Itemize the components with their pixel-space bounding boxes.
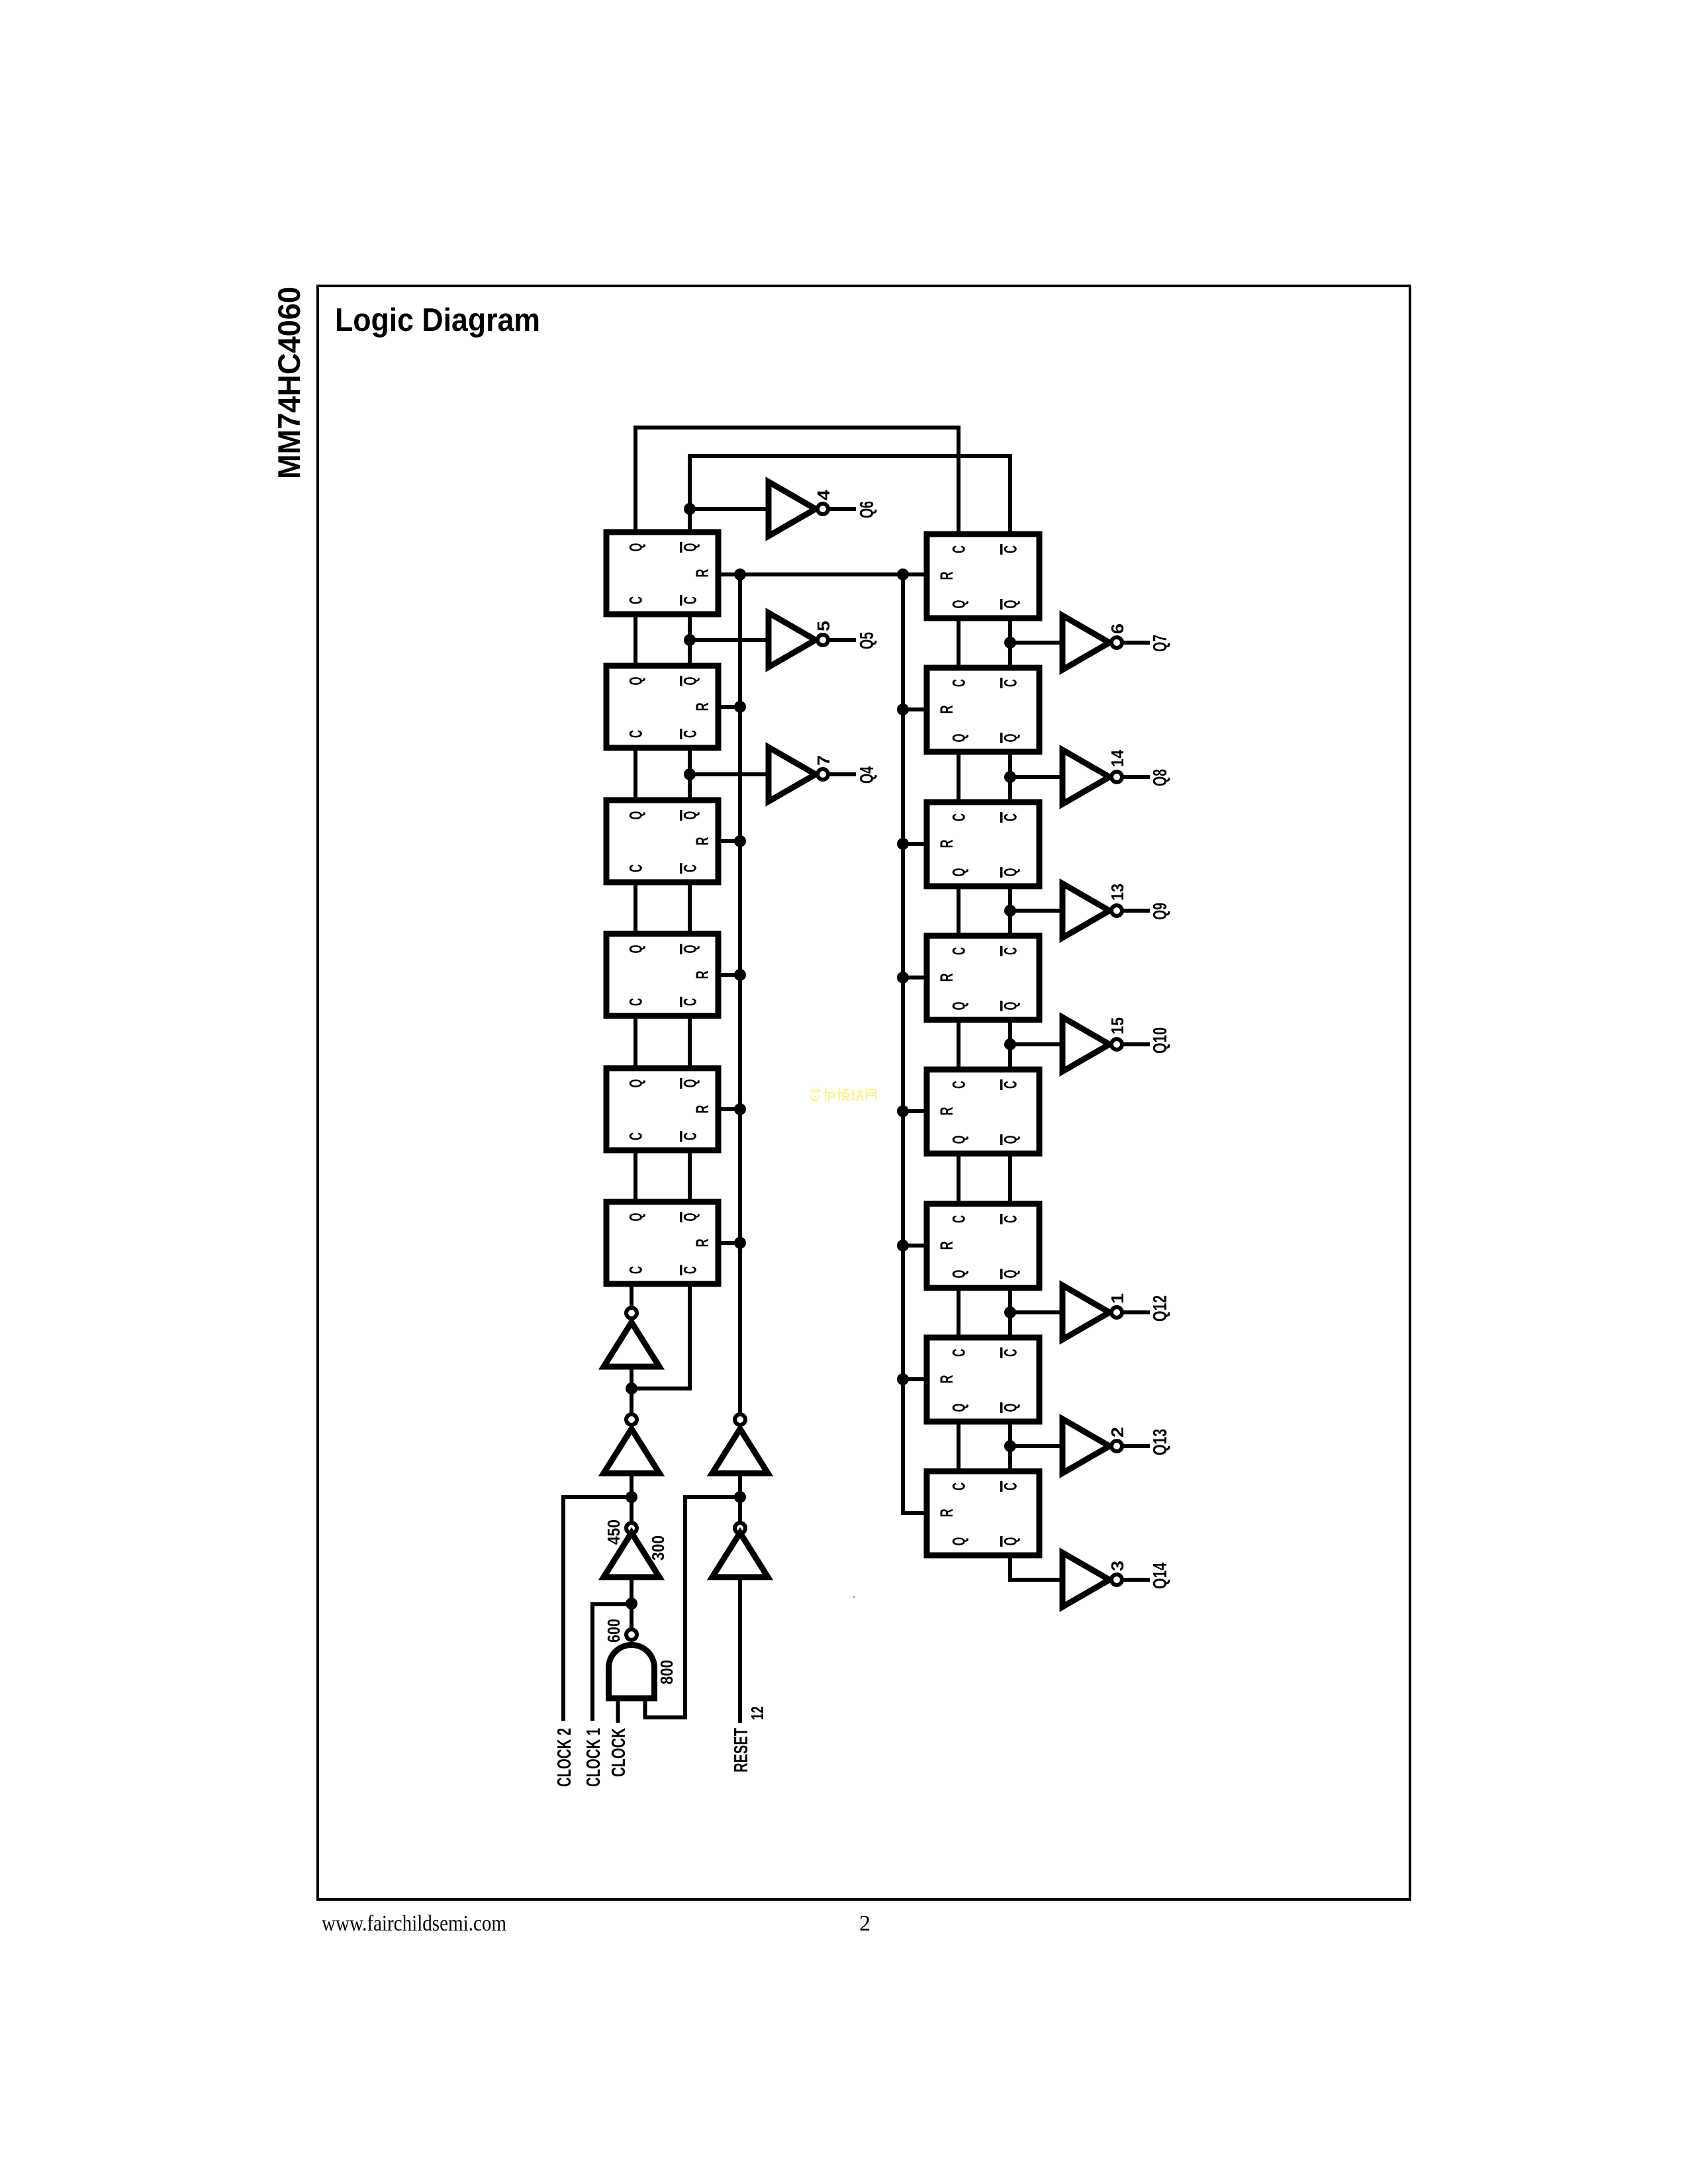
wire RF6 R stub xyxy=(903,1244,927,1248)
flip-flop RF5 (right column stage 11) xyxy=(927,1069,1039,1154)
svg-text:Q: Q xyxy=(1001,1270,1021,1279)
wire RF3 Qbar to RF4 Cbar xyxy=(1008,886,1012,936)
junction FF4 R on rail xyxy=(734,969,746,981)
junction RF5 R on rail xyxy=(897,1105,909,1117)
inverter output buffer 14/Q8 xyxy=(1062,750,1109,804)
svg-text:R: R xyxy=(692,971,712,979)
wire RF5 Q to RF6 C xyxy=(957,1154,961,1204)
wire node B to inverter B bubble xyxy=(630,1497,633,1523)
svg-text:C: C xyxy=(680,1266,700,1274)
wire FF2 R stub xyxy=(718,705,740,709)
svg-text:5: 5 xyxy=(814,621,833,631)
svg-text:Q: Q xyxy=(949,1136,969,1144)
flip-flop RF4 (right column stage 10) xyxy=(927,936,1039,1020)
inverter 3/Q14 xyxy=(1062,1553,1109,1607)
wire FF6 Cbar down to node A xyxy=(688,1284,692,1388)
svg-text:Q: Q xyxy=(949,868,969,877)
wire FF5 R stub xyxy=(718,1107,740,1111)
svg-text:C: C xyxy=(680,730,700,738)
junction Qbar tap for inverter 13 xyxy=(1004,905,1016,917)
wire node A to FF6 Cbar riser xyxy=(632,1387,690,1390)
wire node D to inverter D bubble xyxy=(738,1497,742,1523)
junction Qbar tap for inverter 6 xyxy=(1004,637,1016,649)
junction FF3 R on rail xyxy=(734,835,746,847)
svg-text:CLOCK 2: CLOCK 2 xyxy=(554,1728,575,1787)
svg-text:C: C xyxy=(680,864,700,872)
svg-text:Q: Q xyxy=(949,1270,969,1279)
wire node A to inverter A bubble xyxy=(630,1388,633,1414)
svg-text:R: R xyxy=(937,840,957,848)
svg-text:Q: Q xyxy=(626,677,646,686)
wire node C to CLOCK 1 drop xyxy=(592,1604,632,1721)
junction node B (CLOCK 2 tie) xyxy=(626,1491,637,1503)
svg-text:Q7: Q7 xyxy=(1150,635,1171,652)
wire FF1 Q to RF1 C (top feedback) xyxy=(635,428,959,534)
wire to output buffer 6/Q7 input xyxy=(1010,615,1171,670)
output stub of output buffer 14/Q8 xyxy=(1123,775,1148,779)
wire RF4 Q to RF5 C xyxy=(957,1020,961,1069)
inverter driving FF6 C xyxy=(604,1322,659,1367)
svg-text:R: R xyxy=(937,572,957,580)
bubble of output buffer 6/Q7 xyxy=(1111,637,1122,648)
svg-text:R: R xyxy=(692,1239,712,1248)
junction node C (CLOCK 1 tie) xyxy=(626,1598,637,1610)
junction RF6 R on rail xyxy=(897,1240,909,1251)
wire to output buffer 15/Q10 input xyxy=(1010,1017,1171,1071)
svg-text:R: R xyxy=(937,1242,957,1250)
bubble of output buffer 13/Q9 xyxy=(1111,905,1122,916)
flip-flop RF1 (right column stage 7) xyxy=(927,534,1039,618)
junction FF2 R on rail xyxy=(734,701,746,713)
svg-text:Q: Q xyxy=(1001,1404,1021,1412)
wire to output buffer 14/Q8 input xyxy=(1010,750,1171,804)
svg-text:Q: Q xyxy=(680,1213,700,1222)
bubble of inverter 3/Q14 xyxy=(1111,1574,1122,1585)
wire FF6 C to clock inverter bubble xyxy=(630,1284,633,1308)
bubble of FF6 clock inverter xyxy=(626,1308,637,1318)
wire node B to CLOCK 2 drop xyxy=(563,1497,632,1721)
svg-text:C: C xyxy=(1001,545,1021,553)
svg-text:C: C xyxy=(1001,947,1021,955)
svg-text:R: R xyxy=(937,974,957,982)
svg-text:C: C xyxy=(1001,1482,1021,1490)
svg-text:300: 300 xyxy=(648,1535,668,1561)
bubble of output buffer 4/Q6 xyxy=(818,504,828,514)
svg-text:C: C xyxy=(626,596,646,604)
svg-text:Q: Q xyxy=(626,811,646,820)
wire to output buffer 1/Q12 input xyxy=(1010,1285,1171,1340)
junction right reset rail top xyxy=(897,569,909,580)
svg-text:www.fairchildsemi.com: www.fairchildsemi.com xyxy=(322,1911,506,1936)
svg-text:Q4: Q4 xyxy=(857,766,878,784)
flip-flop RF3 (right column stage 9) xyxy=(927,802,1039,886)
svg-text:800: 800 xyxy=(657,1660,677,1684)
NAND right input stub to reset-inverted net xyxy=(645,1497,686,1717)
svg-text:7: 7 xyxy=(814,755,833,766)
inverter output buffer 2/Q13 xyxy=(1062,1419,1109,1473)
output stub of output buffer 13/Q9 xyxy=(1123,909,1148,913)
wire RF4 Qbar to RF5 Cbar xyxy=(1008,1020,1012,1069)
flip-flop FF2 (left column stage 5) xyxy=(606,666,718,748)
bubble of output buffer 7/Q4 xyxy=(818,769,828,780)
svg-text:4: 4 xyxy=(814,489,833,500)
wire FF3 Cbar to FF4 Qbar xyxy=(688,882,692,934)
junction FF6 R on rail xyxy=(734,1237,746,1249)
bubble of inverter A xyxy=(626,1414,637,1425)
svg-text:Q5: Q5 xyxy=(857,632,878,649)
bubble of output buffer 2/Q13 xyxy=(1111,1441,1122,1451)
junction node A (buffered clock) xyxy=(626,1383,637,1394)
output stub of output buffer 15/Q10 xyxy=(1123,1042,1148,1046)
junction left reset rail top xyxy=(734,569,746,580)
wire RF3 R stub xyxy=(903,842,927,846)
scan speck (decorative) xyxy=(853,1596,855,1598)
svg-text:Q: Q xyxy=(1001,734,1021,743)
flip-flop FF4 (left column stage 3) xyxy=(606,934,718,1016)
inverter output buffer 13/Q9 xyxy=(1062,884,1109,938)
svg-text:Q: Q xyxy=(626,945,646,954)
svg-text:C: C xyxy=(1001,813,1021,821)
svg-text:C: C xyxy=(680,1132,700,1140)
svg-text:R: R xyxy=(937,1107,957,1116)
svg-text:Q10: Q10 xyxy=(1150,1027,1171,1054)
junction RF4 R on rail xyxy=(897,972,909,983)
wire FF1 Qbar to RF1 Cbar (second feedback) xyxy=(690,456,1010,534)
flip-flop FF6 (left column stage 1) xyxy=(606,1202,718,1284)
NAND gate (clock gating) xyxy=(609,1645,655,1699)
svg-text:Q: Q xyxy=(1001,600,1021,609)
svg-text:R: R xyxy=(937,1375,957,1384)
svg-text:2: 2 xyxy=(1107,1427,1127,1437)
output stub of output buffer 4/Q6 xyxy=(829,507,854,511)
wire RF2 Qbar to RF3 Cbar xyxy=(1008,752,1012,802)
output stub of output buffer 1/Q12 xyxy=(1123,1310,1148,1314)
wire inverter C input to node D xyxy=(738,1473,742,1497)
svg-text:C: C xyxy=(1001,1215,1021,1223)
wire FF4 Cbar to FF5 Qbar xyxy=(688,1016,692,1068)
svg-text:Q: Q xyxy=(949,734,969,743)
svg-text:13: 13 xyxy=(1107,884,1127,901)
junction Qbar tap for inverter 5 xyxy=(684,634,696,646)
wire RF2 R stub xyxy=(903,707,927,711)
wire inverter B input to node C xyxy=(630,1577,633,1604)
wire FF4 C to FF5 Q xyxy=(633,1016,637,1068)
inverter output buffer 1/Q12 xyxy=(1062,1285,1109,1340)
inverter B xyxy=(604,1533,659,1577)
wire FF3 R stub xyxy=(718,839,740,843)
junction Qbar tap for inverter 2 xyxy=(1004,1440,1016,1452)
svg-text:C: C xyxy=(949,1081,969,1089)
junction RF3 R on rail xyxy=(897,838,909,850)
svg-text:6: 6 xyxy=(1107,623,1127,634)
svg-text:C: C xyxy=(949,1482,969,1490)
wire FF2 Cbar to FF3 Qbar xyxy=(688,748,692,800)
wire inverter A input to node B xyxy=(630,1473,633,1497)
wire FF4 R stub xyxy=(718,973,740,977)
svg-text:Q: Q xyxy=(1001,1136,1021,1144)
svg-text:Q6: Q6 xyxy=(857,501,878,518)
svg-text:C: C xyxy=(949,679,969,687)
svg-text:Q9: Q9 xyxy=(1150,903,1171,920)
wire RF1 Qbar to RF2 Cbar xyxy=(1008,618,1012,668)
svg-text:Q: Q xyxy=(626,543,646,552)
svg-text:15: 15 xyxy=(1107,1017,1127,1034)
inverter A xyxy=(604,1429,659,1473)
NAND left input stub (CLOCK) xyxy=(616,1698,620,1721)
svg-text:Q: Q xyxy=(949,1537,969,1546)
svg-text:R: R xyxy=(692,569,712,578)
inverter D (reset input) xyxy=(712,1533,768,1577)
svg-text:C: C xyxy=(949,813,969,821)
svg-text:MM74HC4060: MM74HC4060 xyxy=(271,287,306,479)
svg-text:Q12: Q12 xyxy=(1150,1295,1171,1322)
wire to output buffer 2/Q13 input xyxy=(1010,1419,1171,1473)
svg-text:C: C xyxy=(680,596,700,604)
wire FF3 C to FF4 Q xyxy=(633,882,637,934)
svg-text:Q: Q xyxy=(626,1079,646,1088)
wire RF6 Qbar to RF7 Cbar xyxy=(1008,1288,1012,1338)
svg-text:3: 3 xyxy=(1107,1561,1127,1571)
wire node D to NAND-branch vertical xyxy=(685,1495,740,1499)
svg-text:Q: Q xyxy=(626,1213,646,1222)
svg-text:2: 2 xyxy=(859,1911,870,1936)
wire FF5 C to FF6 Q xyxy=(633,1150,637,1202)
svg-text:Q: Q xyxy=(1001,1537,1021,1546)
svg-text:C: C xyxy=(1001,1081,1021,1089)
junction node D (inverted reset) xyxy=(734,1491,746,1503)
junction Qbar tap for inverter 14 xyxy=(1004,771,1016,783)
svg-text:Q14: Q14 xyxy=(1150,1563,1171,1589)
watermark (decorative) xyxy=(810,1087,876,1101)
svg-text:C: C xyxy=(680,998,700,1006)
output stub of inverter 3/Q14 xyxy=(1123,1578,1148,1582)
output stub of output buffer 7/Q4 xyxy=(829,772,854,776)
wire node C to NAND output bubble xyxy=(630,1604,633,1629)
svg-text:C: C xyxy=(949,545,969,553)
output stub of output buffer 2/Q13 xyxy=(1123,1444,1148,1448)
svg-text:C: C xyxy=(949,1215,969,1223)
inverter output buffer 5/Q5 xyxy=(769,613,816,667)
RESET input wire pin 12 xyxy=(738,1577,742,1721)
svg-text:450: 450 xyxy=(604,1520,624,1545)
svg-text:C: C xyxy=(626,864,646,872)
bubble of output buffer 15/Q10 xyxy=(1111,1039,1122,1050)
svg-text:14: 14 xyxy=(1107,750,1127,767)
svg-text:Q: Q xyxy=(949,1404,969,1412)
left reset rail vertical xyxy=(738,574,742,1414)
svg-text:Q: Q xyxy=(680,1079,700,1088)
wire RF7 Qbar to RF8 Cbar xyxy=(1008,1422,1012,1471)
flip-flop FF1 (left column stage 6) xyxy=(606,532,718,614)
wire RF8 Qbar down to Q14 inverter xyxy=(1010,1555,1062,1580)
bubble of output buffer 5/Q5 xyxy=(818,635,828,645)
svg-text:Q13: Q13 xyxy=(1150,1429,1171,1455)
svg-text:R: R xyxy=(692,703,712,711)
svg-text:Q: Q xyxy=(949,600,969,609)
flip-flop RF6 (right column stage 12) xyxy=(927,1204,1039,1288)
svg-text:C: C xyxy=(1001,1349,1021,1357)
svg-text:Q: Q xyxy=(680,543,700,552)
inverter C (reset buffer) xyxy=(712,1429,768,1473)
wire to output buffer 7/Q4 input xyxy=(690,747,878,801)
svg-text:Q: Q xyxy=(1001,868,1021,877)
right reset rail vertical xyxy=(903,574,927,1513)
bubble of inverter D (reset input) xyxy=(735,1523,745,1533)
wire RF3 Q to RF4 C xyxy=(957,886,961,936)
svg-text:R: R xyxy=(937,705,957,714)
reset rail horizontal FF1-R to RF1-R xyxy=(718,572,927,576)
wire FF1 C to FF2 Q xyxy=(633,614,637,666)
flip-flop RF7 (right column stage 13) xyxy=(927,1338,1039,1422)
junction Qbar tap for inverter 15 xyxy=(1004,1038,1016,1050)
svg-text:Q: Q xyxy=(949,1002,969,1011)
bubble of inverter B xyxy=(626,1523,637,1533)
svg-text:C: C xyxy=(626,998,646,1006)
svg-text:CLOCK: CLOCK xyxy=(608,1728,630,1777)
wire FF6 R stub xyxy=(718,1241,740,1245)
flip-flop FF3 (left column stage 4) xyxy=(606,800,718,882)
svg-text:C: C xyxy=(949,1349,969,1357)
page border frame xyxy=(318,286,1410,1899)
svg-text:12: 12 xyxy=(747,1706,767,1720)
wire to output buffer 13/Q9 input xyxy=(1010,884,1171,938)
wire RF6 Q to RF7 C xyxy=(957,1288,961,1338)
wire RF1 Q to RF2 C xyxy=(957,618,961,668)
inverter output buffer 7/Q4 xyxy=(769,747,816,801)
inverter output buffer 4/Q6 xyxy=(769,482,816,536)
wire RF7 Q to RF8 C xyxy=(957,1422,961,1471)
bubble of output buffer 14/Q8 xyxy=(1111,772,1122,782)
svg-text:Q: Q xyxy=(680,677,700,686)
svg-text:Q8: Q8 xyxy=(1150,769,1171,786)
wire RF2 Q to RF3 C xyxy=(957,752,961,802)
svg-text:1: 1 xyxy=(1107,1293,1127,1304)
svg-text:R: R xyxy=(692,1105,712,1114)
svg-text:C: C xyxy=(1001,679,1021,687)
inverter output buffer 15/Q10 xyxy=(1062,1017,1109,1071)
junction Qbar tap for inverter 7 xyxy=(684,768,696,780)
wire RF7 R stub xyxy=(903,1377,927,1381)
bubble of output buffer 1/Q12 xyxy=(1111,1307,1122,1318)
svg-text:R: R xyxy=(937,1509,957,1518)
junction RF2 R on rail xyxy=(897,704,909,715)
wire RF5 Qbar to RF6 Cbar xyxy=(1008,1154,1012,1204)
wire RF5 R stub xyxy=(903,1109,927,1113)
wire to output buffer 5/Q5 input xyxy=(690,613,878,667)
svg-text:C: C xyxy=(626,1132,646,1140)
junction Qbar tap for inverter 1 xyxy=(1004,1306,1016,1318)
wire FF5 Cbar to FF6 Qbar xyxy=(688,1150,692,1202)
wire to output buffer 4/Q6 input xyxy=(690,482,878,536)
svg-text:C: C xyxy=(949,947,969,955)
flip-flop FF5 (left column stage 2) xyxy=(606,1068,718,1150)
svg-text:CLOCK 1: CLOCK 1 xyxy=(583,1728,604,1787)
bubble of inverter C (reset buffer) xyxy=(735,1414,745,1425)
svg-text:R: R xyxy=(692,837,712,846)
svg-text:Q: Q xyxy=(680,945,700,954)
svg-text:600: 600 xyxy=(604,1619,624,1643)
svg-text:Q: Q xyxy=(1001,1002,1021,1011)
wire FF1 Cbar to FF2 Qbar xyxy=(688,614,692,666)
svg-text:C: C xyxy=(626,730,646,738)
output stub of output buffer 6/Q7 xyxy=(1123,641,1148,645)
svg-text:RESET: RESET xyxy=(731,1728,752,1772)
flip-flop RF8 (right column stage 14) xyxy=(927,1471,1039,1555)
junction FF1 Qbar / inverter 4 tap xyxy=(684,503,696,515)
junction FF5 R on rail xyxy=(734,1103,746,1115)
wire RF4 R stub xyxy=(903,976,927,979)
inverter output buffer 6/Q7 xyxy=(1062,615,1109,670)
bubble of NAND gate xyxy=(626,1629,637,1640)
junction RF7 R on rail xyxy=(897,1373,909,1385)
svg-text:Q: Q xyxy=(680,811,700,820)
output stub of output buffer 5/Q5 xyxy=(829,638,854,642)
svg-text:C: C xyxy=(626,1266,646,1274)
svg-text:Logic Diagram: Logic Diagram xyxy=(335,302,540,338)
wire inverter input down to node A xyxy=(630,1367,633,1388)
wire FF2 C to FF3 Q xyxy=(633,748,637,800)
flip-flop RF2 (right column stage 8) xyxy=(927,668,1039,752)
